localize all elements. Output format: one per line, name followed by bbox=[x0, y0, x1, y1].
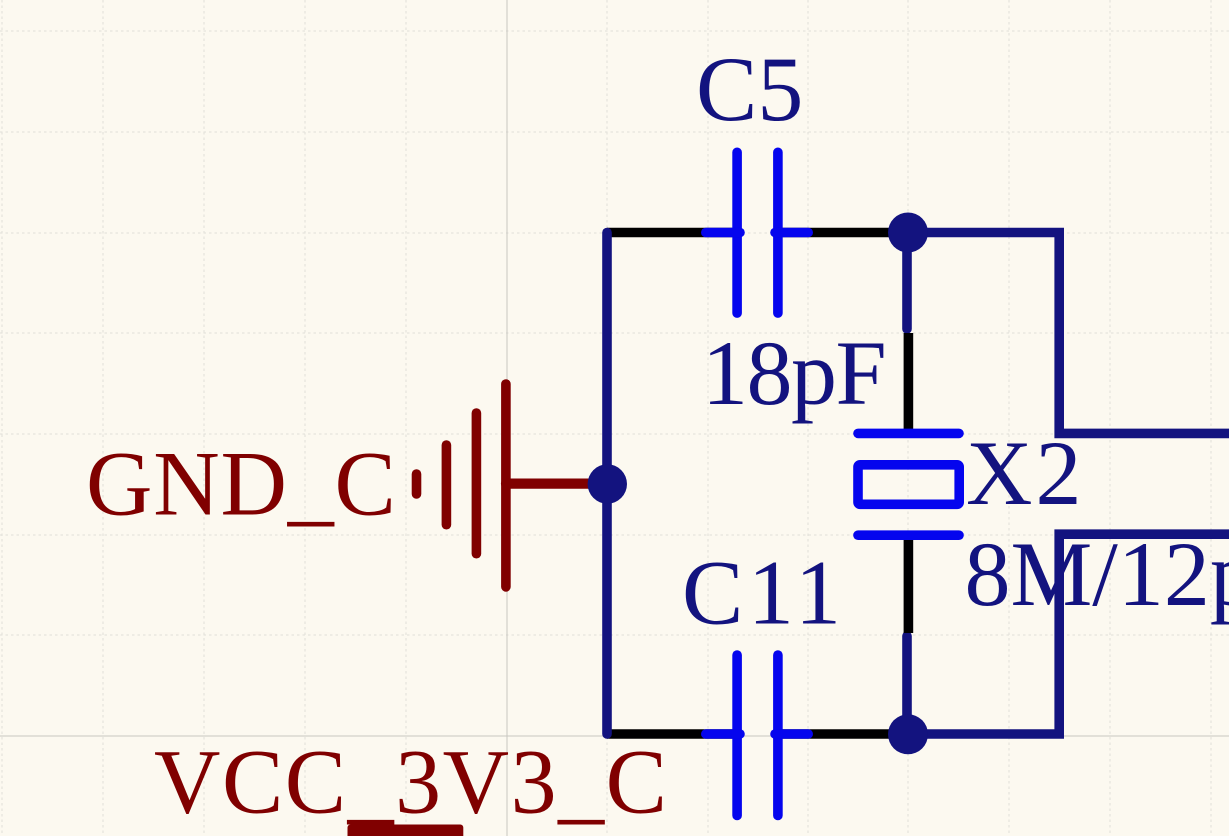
capacitor C11 bbox=[706, 655, 808, 816]
junction dot bottom (node XTAL2) bbox=[888, 714, 928, 754]
svg-text:18pF: 18pF bbox=[702, 322, 885, 424]
wire top-right to edge bbox=[908, 233, 1229, 434]
svg-text:C5: C5 bbox=[696, 38, 803, 140]
wire bottom row left (black, C11 pin 1) bbox=[607, 729, 741, 739]
power bar VCC_3V3_C (clipped at bottom) bbox=[348, 825, 464, 836]
svg-text:8M/12pF: 8M/12pF bbox=[965, 523, 1229, 625]
wire left vertical GND net bbox=[602, 233, 612, 735]
wire stub below top junction bbox=[902, 233, 912, 330]
svg-text:GND_C: GND_C bbox=[86, 433, 397, 535]
wire top row left (black, C5 pin 1) bbox=[607, 228, 741, 238]
ground symbol GND_C bbox=[417, 384, 601, 587]
junction dot top (node XTAL1) bbox=[888, 213, 928, 253]
svg-text:C11: C11 bbox=[682, 542, 845, 644]
crystal X2 body bbox=[858, 433, 959, 535]
svg-text:X2: X2 bbox=[966, 422, 1084, 524]
wire bottom row right (black, C11 pin 2) bbox=[775, 729, 909, 739]
capacitor C5 bbox=[706, 152, 808, 313]
crystal X2 pin 1 (black, top) bbox=[904, 333, 914, 433]
wire stub above bottom junction bbox=[902, 636, 912, 734]
junction dot GND (node GND_C) bbox=[588, 464, 627, 503]
svg-text:VCC_3V3_C: VCC_3V3_C bbox=[154, 731, 668, 833]
wire bottom-right to edge bbox=[908, 534, 1229, 734]
wire top row right (black, C5 pin 2) bbox=[775, 228, 909, 238]
crystal X2 pin 2 (black, bottom) bbox=[904, 535, 914, 633]
